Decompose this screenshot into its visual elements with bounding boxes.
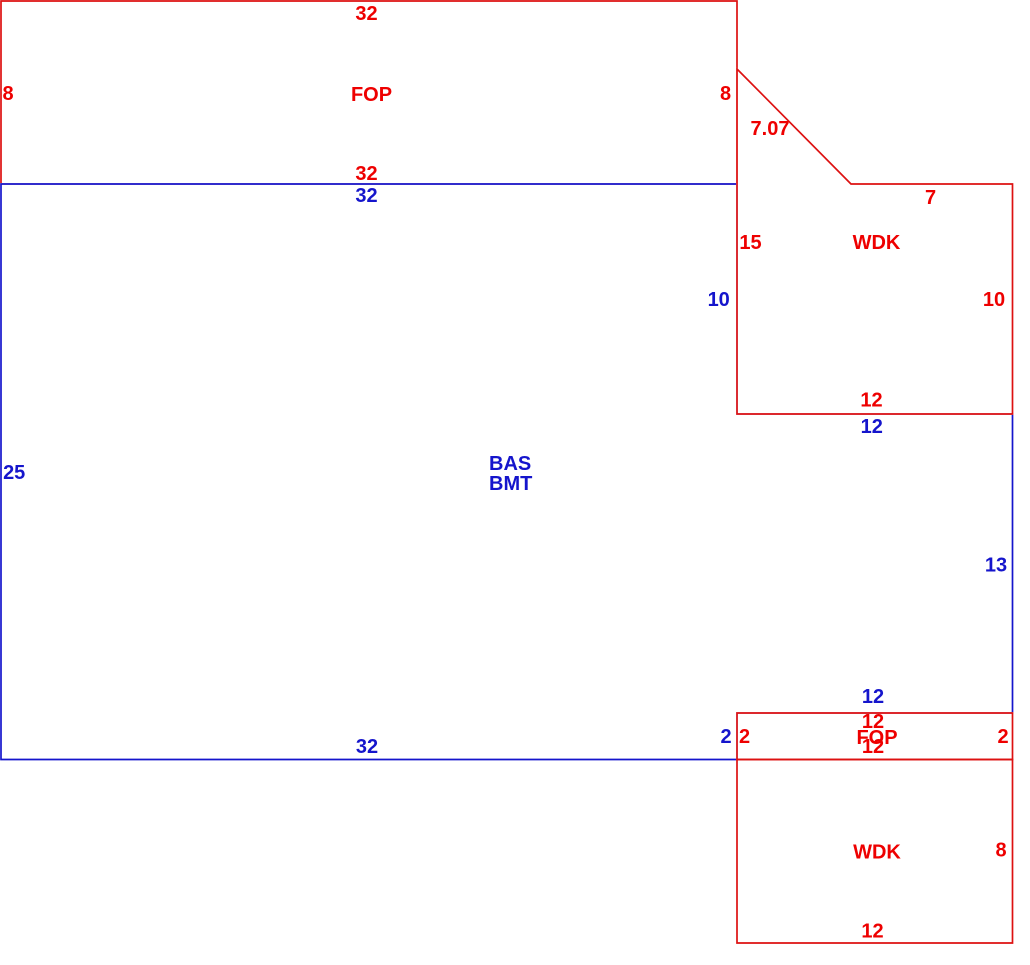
area FOP (top porch) outline <box>1 1 737 184</box>
svg-text:WDK: WDK <box>853 842 901 864</box>
svg-text:32: 32 <box>355 185 377 207</box>
svg-text:12: 12 <box>861 921 883 943</box>
svg-text:WDK: WDK <box>853 232 901 254</box>
svg-text:7: 7 <box>925 187 936 209</box>
svg-text:BMT: BMT <box>489 473 532 495</box>
svg-text:2: 2 <box>997 726 1008 748</box>
svg-text:32: 32 <box>356 736 378 758</box>
svg-text:12: 12 <box>860 390 882 412</box>
area WDK (upper deck) outline <box>737 69 1013 414</box>
svg-text:13: 13 <box>985 555 1007 577</box>
svg-text:BAS: BAS <box>489 453 531 475</box>
svg-text:8: 8 <box>2 83 13 105</box>
svg-text:32: 32 <box>355 163 377 185</box>
svg-text:32: 32 <box>355 3 377 25</box>
svg-text:12: 12 <box>861 416 883 438</box>
svg-text:25: 25 <box>3 462 25 484</box>
svg-text:8: 8 <box>995 840 1006 862</box>
svg-text:8: 8 <box>720 83 731 105</box>
svg-text:2: 2 <box>739 726 750 748</box>
area BAS/BMT outline <box>1 184 1013 760</box>
svg-text:12: 12 <box>862 736 884 758</box>
area FOP (lower porch) outline <box>737 713 1013 760</box>
svg-text:10: 10 <box>983 289 1005 311</box>
svg-text:10: 10 <box>708 289 730 311</box>
svg-text:2: 2 <box>720 726 731 748</box>
svg-text:7.07: 7.07 <box>751 118 790 140</box>
svg-text:12: 12 <box>862 686 884 708</box>
svg-text:FOP: FOP <box>351 84 392 106</box>
svg-text:15: 15 <box>739 232 761 254</box>
area WDK (lower deck) outline <box>737 760 1013 944</box>
